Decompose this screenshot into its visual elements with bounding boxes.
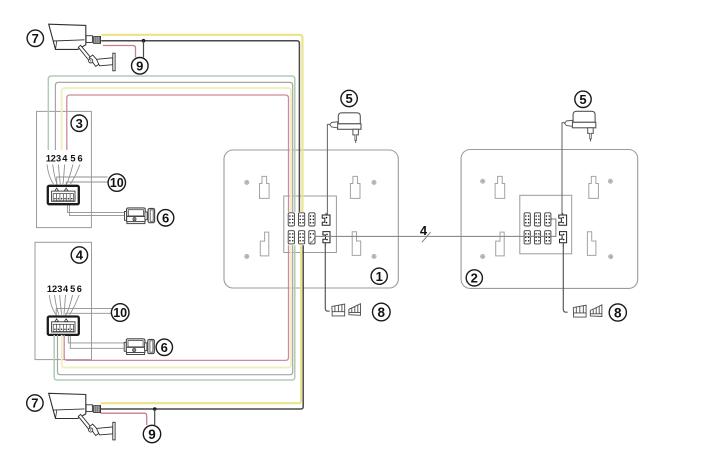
wire black top camera bbox=[101, 41, 299, 240]
svg-text:10: 10 bbox=[110, 176, 124, 190]
monitor U1 bracket bbox=[224, 150, 398, 288]
connector pointer lines to 10 (box 4) bbox=[56, 308, 111, 319]
label circle 1 (monitor1) bbox=[371, 268, 387, 284]
label circle 6 (box3) bbox=[157, 210, 173, 226]
lock 6 (box 3) bbox=[125, 208, 155, 224]
interconnect cable 4 (monitor1 to monitor2) bbox=[315, 219, 556, 236]
label circle 7 bottom bbox=[27, 395, 43, 411]
pin block A monitor1 bbox=[288, 213, 294, 226]
wire black bottom camera bbox=[101, 218, 304, 409]
camera 7 top bbox=[49, 24, 115, 71]
svg-text:4: 4 bbox=[420, 223, 428, 238]
monitor U2 screw top-left bbox=[481, 179, 485, 183]
label circle 5 (monitor1) bbox=[341, 90, 357, 106]
label circle 10 (box4) bbox=[111, 304, 129, 322]
socket D monitor1 bbox=[322, 213, 330, 225]
adapter cable monitor2 bbox=[562, 123, 565, 215]
svg-text:6: 6 bbox=[161, 340, 168, 355]
wire nut pair 8 (monitor2) bbox=[573, 305, 602, 317]
pin block A monitor2 bbox=[524, 213, 530, 226]
svg-text:7: 7 bbox=[31, 396, 38, 411]
monitor U2 keyhole slot bottom-right bbox=[587, 232, 596, 256]
pin block C monitor1 bbox=[309, 213, 315, 226]
svg-text:5: 5 bbox=[579, 92, 586, 107]
svg-text:9: 9 bbox=[136, 59, 143, 74]
terminal fan wires (box 4) bbox=[49, 295, 79, 315]
svg-text:7: 7 bbox=[32, 31, 39, 46]
wire junction to label 9 bottom bbox=[154, 409, 156, 425]
junction dot bottom camera bbox=[153, 407, 157, 411]
svg-text:5: 5 bbox=[70, 153, 75, 163]
svg-text:1: 1 bbox=[376, 269, 383, 284]
monitor U1 screw bottom-left bbox=[245, 254, 249, 258]
monitor U2 bracket bbox=[461, 150, 638, 289]
wire yellow bottom camera bbox=[101, 218, 301, 403]
label circle 8 (monitor2) bbox=[609, 304, 626, 321]
lock 6 (box 4) bbox=[124, 339, 154, 355]
wire red top camera bbox=[103, 46, 136, 58]
connector cluster background monitor 1 bbox=[287, 212, 317, 245]
pin block B monitor2 bbox=[534, 213, 540, 226]
camera 7 bottom bbox=[49, 393, 115, 440]
monitor U1 keyhole slot top-right bbox=[350, 176, 360, 198]
lock wires (box 4 to lock 6) bbox=[68, 335, 124, 349]
wire teal loop (box3 - monitor1 - box4) bbox=[48, 76, 294, 380]
pin block F monitor1 bbox=[299, 231, 305, 244]
terminal block (box 3) bbox=[48, 186, 79, 204]
svg-text:8: 8 bbox=[378, 305, 386, 320]
svg-text:10: 10 bbox=[113, 306, 127, 320]
svg-text:3: 3 bbox=[57, 284, 62, 294]
socket D monitor2 bbox=[559, 213, 567, 225]
monitor U2 keyhole slot top-right bbox=[589, 176, 599, 198]
monitor U1 screw bottom-right bbox=[372, 254, 376, 258]
arrowhead into block C monitor2 bbox=[550, 218, 553, 220]
monitor U1 screw top-left bbox=[245, 180, 249, 184]
pin block B monitor1 bbox=[299, 213, 305, 226]
pin block F monitor2 bbox=[534, 231, 540, 244]
wire yellow loop bbox=[62, 88, 291, 368]
label circle 9 bottom bbox=[143, 425, 160, 442]
svg-text:4: 4 bbox=[62, 153, 68, 163]
monitor U2 connector box bbox=[520, 195, 572, 254]
label circle 9 top bbox=[132, 58, 149, 75]
junction dot top camera bbox=[142, 39, 146, 43]
door station box 3 bbox=[37, 111, 92, 227]
svg-text:4: 4 bbox=[63, 284, 69, 294]
terminal numbers 1-6 (box 4) bbox=[47, 284, 82, 294]
monitor U1 keyhole slot bottom-right bbox=[352, 232, 361, 256]
wire nut pair 8 (monitor1) bbox=[332, 304, 361, 316]
monitor U1 keyhole slot top-left bbox=[260, 176, 270, 198]
label circle 4 (box4) bbox=[71, 247, 87, 263]
monitor U1 keyhole slot bottom-left bbox=[260, 232, 269, 256]
monitor U2 screw bottom-right bbox=[609, 255, 613, 259]
terminal fan wires (box 3) bbox=[47, 165, 80, 185]
adapter cable monitor1 bbox=[327, 124, 331, 214]
svg-text:9: 9 bbox=[148, 427, 156, 442]
hook into block G monitor1 bbox=[310, 236, 314, 242]
door station box 4 bbox=[35, 242, 92, 359]
monitor U2 screw bottom-left bbox=[481, 254, 485, 258]
svg-text:2: 2 bbox=[471, 271, 478, 286]
pin block E monitor2 bbox=[524, 231, 530, 244]
label circle 8 (monitor1) bbox=[373, 303, 391, 321]
pin block E monitor1 bbox=[288, 231, 294, 244]
svg-text:6: 6 bbox=[162, 211, 169, 226]
monitor U2 keyhole slot top-left bbox=[495, 176, 505, 198]
terminal block (box 4) bbox=[48, 317, 79, 335]
label circle 10 (box3) bbox=[108, 174, 125, 191]
svg-text:8: 8 bbox=[614, 305, 622, 320]
wire yellow top camera bbox=[101, 35, 302, 240]
speaker wire monitor1 bbox=[325, 244, 329, 311]
monitor U2 keyhole slot bottom-left bbox=[496, 232, 505, 256]
monitor U1 connector box bbox=[284, 196, 337, 253]
monitor U1 screw top-right bbox=[372, 180, 376, 184]
pin block C monitor2 bbox=[545, 213, 551, 226]
svg-text:6: 6 bbox=[77, 284, 82, 294]
lock wires (box 3 to lock 6) bbox=[67, 204, 124, 216]
label circle 2 (monitor2) bbox=[466, 270, 482, 286]
wire gray loop bbox=[55, 82, 292, 374]
svg-text:5: 5 bbox=[70, 284, 75, 294]
svg-text:3: 3 bbox=[76, 116, 83, 131]
cable break slash (cable 4) bbox=[422, 232, 431, 242]
connector pointer lines to 10 (box 3) bbox=[57, 177, 108, 189]
monitor U2 screw top-right bbox=[608, 179, 612, 183]
power adapter 5 (monitor1) bbox=[330, 113, 361, 143]
wire red bottom camera bbox=[101, 413, 147, 425]
speaker wire monitor2 bbox=[563, 244, 567, 312]
socket H monitor2 bbox=[560, 232, 567, 247]
svg-text:3: 3 bbox=[56, 153, 61, 163]
wire junction to label 9 top bbox=[143, 41, 145, 58]
label circle 7 top bbox=[27, 30, 43, 46]
svg-text:5: 5 bbox=[345, 91, 352, 106]
pin block G monitor1 bbox=[309, 231, 315, 244]
svg-text:4: 4 bbox=[76, 248, 84, 263]
svg-text:6: 6 bbox=[77, 153, 82, 163]
label circle 6 (box4) bbox=[156, 339, 172, 355]
label circle 3 bbox=[71, 115, 87, 131]
power adapter 5 (monitor2) bbox=[565, 111, 596, 141]
wire red loop bbox=[64, 95, 288, 360]
label circle 5 (monitor2) bbox=[575, 91, 591, 107]
pin block G monitor2 bbox=[545, 231, 551, 244]
socket H monitor1 bbox=[323, 232, 330, 247]
terminal numbers 1-6 (box 3) bbox=[46, 153, 83, 163]
